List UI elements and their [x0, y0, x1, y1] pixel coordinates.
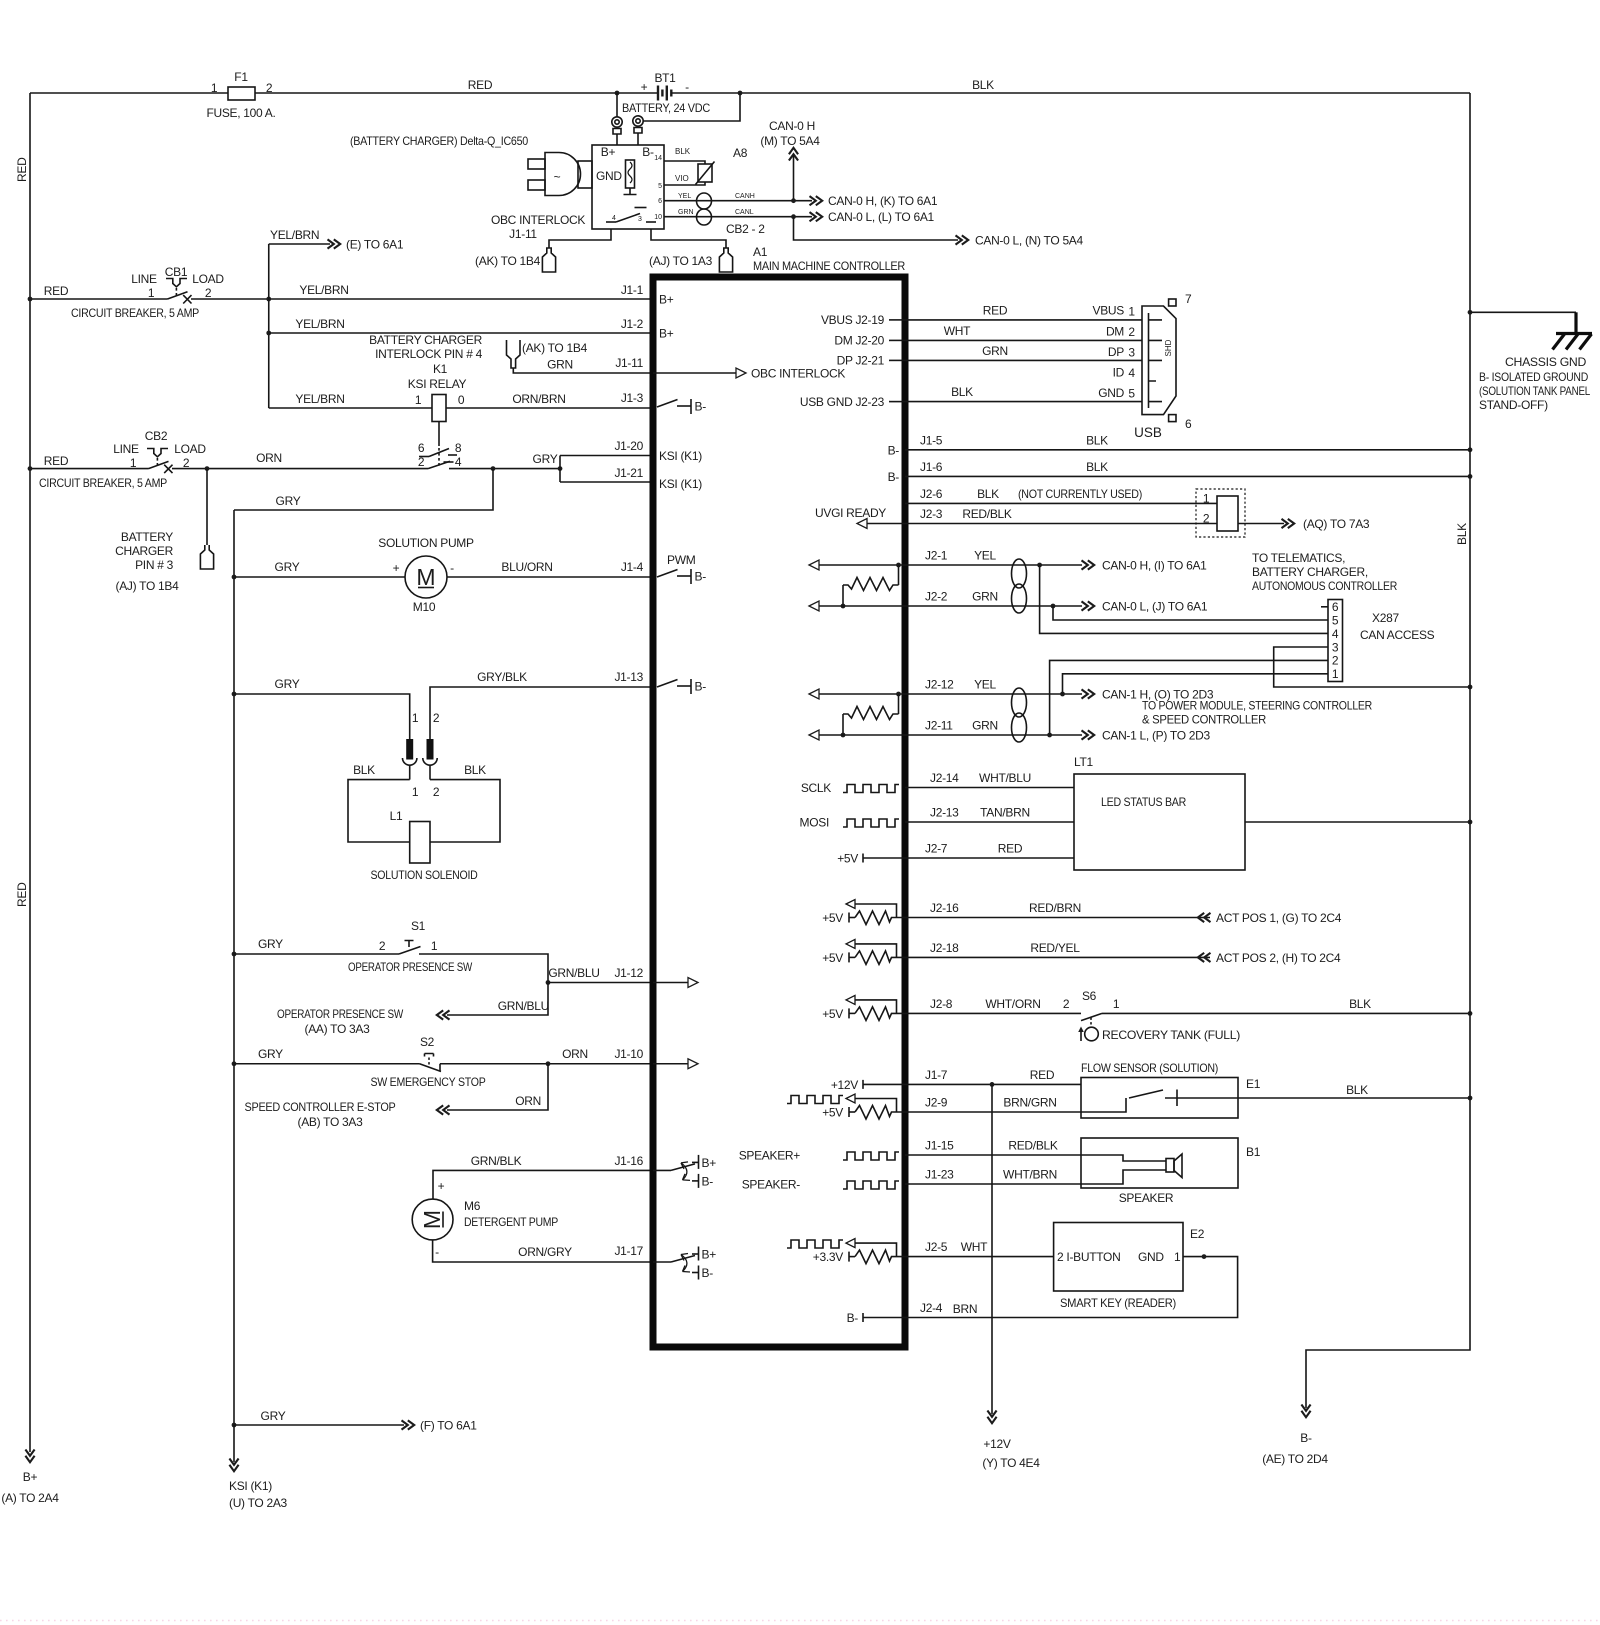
wire GRY bus to pump + [234, 576, 405, 578]
svg-text:(AB) TO 3A3: (AB) TO 3A3 [298, 1115, 364, 1129]
svg-text:+12V: +12V [831, 1078, 858, 1092]
node YEL/BRN vertical bus [268, 244, 270, 408]
svg-text:BLK: BLK [1346, 1083, 1368, 1097]
svg-text:J1-23: J1-23 [925, 1168, 954, 1182]
junction battery charger pin3 tap [205, 466, 210, 471]
svg-text:M6: M6 [464, 1199, 481, 1213]
svg-text:CB2: CB2 [145, 429, 168, 443]
UVGI 2-pin connector [1196, 489, 1245, 537]
svg-text:YEL/BRN: YEL/BRN [299, 283, 348, 297]
wire BLK flow sensor to right bus [1238, 1097, 1470, 1099]
wire YEL/BRN CB1 load to controller J1-1 [191, 298, 653, 300]
pin J1-12 input arrow (inside) [653, 982, 688, 984]
pin 14 (BLK) wire to varistor [664, 161, 705, 164]
speaker B1 [1081, 1138, 1261, 1205]
junction GRY drop [491, 466, 496, 471]
svg-text:OPERATOR PRESENCE SW: OPERATOR PRESENCE SW [277, 1007, 404, 1021]
svg-text:BLK: BLK [1455, 523, 1469, 545]
svg-text:ORN/GRY: ORN/GRY [518, 1245, 572, 1259]
node CAN-0 H (M) TO 5A4 : up arrow [760, 119, 820, 201]
svg-text:+5V: +5V [822, 911, 843, 925]
svg-text:6: 6 [418, 441, 425, 455]
junction S6 BLK / BLK bus [1468, 1011, 1473, 1016]
arrow B+ off-page (bottom left) [25, 1450, 34, 1463]
pin +5V pullup J2-8 (inside) [846, 995, 905, 1020]
svg-text:2: 2 [1203, 512, 1210, 526]
wire BLK from battery to right bus [671, 92, 1470, 94]
svg-text:ORN: ORN [515, 1094, 541, 1108]
wire S1 to J1-12 corner [419, 954, 548, 983]
svg-text:BLK: BLK [1086, 460, 1108, 474]
wire YEL/BRN to controller J1-2 [269, 332, 653, 334]
svg-text:GRY: GRY [276, 494, 301, 508]
svg-text:+: + [641, 80, 648, 94]
motor M6 detergent pump [412, 1199, 558, 1259]
pin J1-16 H-bridge output (inside) [653, 1155, 716, 1189]
svg-text:WHT/ORN: WHT/ORN [985, 997, 1040, 1011]
wire charger pin3 to connector (AJ) [651, 229, 726, 248]
svg-text:J1-15: J1-15 [925, 1139, 954, 1153]
wire CAN-0 H branch to X287 pin 4 [1040, 565, 1328, 633]
svg-text:SCLK: SCLK [801, 781, 831, 795]
svg-text:CB1: CB1 [165, 265, 188, 279]
pin 10 CANL wire [664, 216, 812, 218]
svg-text:CAN-1 L, (P) TO 2D3: CAN-1 L, (P) TO 2D3 [1102, 729, 1211, 743]
wire charger pin4 to connector (AK) [549, 229, 611, 248]
wire S2 to J1-10 [440, 1063, 653, 1065]
svg-text:J2-18: J2-18 [930, 941, 959, 955]
svg-text:8: 8 [455, 441, 462, 455]
arrow CAN-0 H (I) TO 6A1 [1082, 560, 1095, 569]
svg-text:ORN: ORN [256, 451, 282, 465]
svg-text:5: 5 [1128, 387, 1135, 401]
svg-text:J2-9: J2-9 [925, 1096, 948, 1110]
junction J1-2 tap [266, 331, 271, 336]
LED status bar LT1 [1074, 755, 1245, 870]
svg-text:GRY/BLK: GRY/BLK [477, 670, 527, 684]
varistor on charger output [696, 162, 715, 185]
choke / transformer inside charger [624, 160, 637, 195]
svg-text:KSI (K1): KSI (K1) [659, 449, 702, 463]
svg-text:+5V: +5V [837, 852, 858, 866]
wire RED/BLK J2-3 UVGI [905, 523, 1217, 525]
junction GRY to pump [232, 575, 237, 580]
svg-text:A1: A1 [753, 245, 768, 259]
svg-text:K1: K1 [433, 362, 448, 376]
svg-text:2 I-BUTTON: 2 I-BUTTON [1057, 1250, 1120, 1264]
svg-text:7: 7 [1185, 292, 1192, 306]
junction chassis ground tap [1468, 310, 1473, 315]
wire BLK left loop to solenoid [348, 780, 410, 842]
wire X287 pin 3 ground to right bus [1274, 647, 1470, 687]
twisted pair CB2-2 [697, 193, 712, 225]
relay K1 contact 2-4 [418, 455, 462, 469]
svg-text:KSI (K1): KSI (K1) [229, 1479, 272, 1493]
wire BRN/GRN J2-9 to flow sensor [905, 1111, 1081, 1113]
svg-text:CB2 - 2: CB2 - 2 [726, 222, 765, 236]
svg-text:CHARGER: CHARGER [115, 544, 174, 558]
decorative bottom dotted line [0, 1620, 1600, 1622]
svg-text:INTERLOCK PIN # 4: INTERLOCK PIN # 4 [375, 347, 483, 361]
svg-text:PIN # 3: PIN # 3 [135, 558, 174, 572]
svg-text:CAN-0 L, (N) TO 5A4: CAN-0 L, (N) TO 5A4 [975, 234, 1084, 248]
wire GRY bus to S2 [234, 1063, 420, 1065]
svg-text:YEL/BRN: YEL/BRN [295, 392, 344, 406]
svg-text:SOLUTION PUMP: SOLUTION PUMP [378, 536, 474, 550]
svg-text:B1: B1 [1246, 1145, 1261, 1159]
svg-text:BATTERY CHARGER: BATTERY CHARGER [369, 333, 482, 347]
svg-text:J1-13: J1-13 [614, 670, 643, 684]
wire ORN/GRY pump - to controller J1-17 [433, 1240, 653, 1262]
svg-text:0: 0 [458, 393, 465, 407]
wire BLK J2-23 to USB pin5 [905, 401, 1142, 403]
svg-text:YEL/BRN: YEL/BRN [270, 228, 319, 242]
svg-text:BLK: BLK [951, 385, 973, 399]
svg-text:RED/BRN: RED/BRN [1029, 901, 1081, 915]
wire WHT J2-20 to USB pin2 [905, 339, 1142, 341]
wire relay contact 4 to KSI fork [449, 468, 560, 470]
svg-text:X287: X287 [1372, 611, 1399, 625]
wire WHT/ORN J2-8 to S6 [905, 1012, 1081, 1014]
wire BLK J2-6 (not currently used) [905, 502, 1217, 504]
svg-text:ORN/BRN: ORN/BRN [512, 392, 565, 406]
svg-text:DM: DM [1106, 325, 1124, 339]
svg-text:(E) TO 6A1: (E) TO 6A1 [346, 238, 404, 252]
svg-text:GRN: GRN [972, 590, 998, 604]
wire ORN from CB2 to relay contact 2 [172, 468, 428, 470]
junction X287 pin3 / BLK bus [1468, 685, 1473, 690]
svg-text:B-: B- [888, 470, 900, 484]
svg-text:J1-3: J1-3 [621, 391, 644, 405]
junction J1-6 / BLK bus [1468, 474, 1473, 479]
svg-text:USB: USB [1134, 425, 1162, 440]
wire GRN J2-11 CAN-1 L [905, 734, 1082, 736]
junction GRY to S2 [232, 1061, 237, 1066]
svg-text:L1: L1 [390, 809, 403, 823]
pin +5V pullup J2-9 with PWM (inside) [846, 1094, 905, 1119]
svg-text:-: - [435, 1245, 439, 1259]
svg-text:GRY: GRY [258, 937, 283, 951]
svg-text:J1-21: J1-21 [614, 466, 643, 480]
svg-text:2: 2 [205, 286, 212, 300]
circuit breaker CB2 [39, 429, 206, 490]
svg-text:B-: B- [888, 443, 900, 457]
wire GRY bus to solenoid pin 1 [234, 694, 410, 739]
svg-text:CANL: CANL [735, 209, 754, 216]
svg-text:J2-6: J2-6 [920, 487, 943, 501]
svg-text:J1-10: J1-10 [614, 1047, 643, 1061]
svg-text:SW EMERGENCY STOP: SW EMERGENCY STOP [371, 1075, 486, 1089]
svg-text:MAIN MACHINE CONTROLLER: MAIN MACHINE CONTROLLER [753, 259, 906, 273]
junction KSI fork [558, 466, 563, 471]
svg-text:B-: B- [642, 145, 654, 159]
relay K1 contact 6-8 [418, 441, 462, 457]
svg-text:B-: B- [847, 1311, 859, 1325]
wire WHT/BLU J2-14 to LED bar [905, 787, 1109, 789]
pin J2-1 CAN input (inside) [809, 560, 819, 570]
junction GRY to solenoid [232, 692, 237, 697]
svg-text:BLK: BLK [464, 763, 486, 777]
svg-text:CAN-0 H, (K) TO 6A1: CAN-0 H, (K) TO 6A1 [828, 194, 938, 208]
svg-text:LED STATUS BAR: LED STATUS BAR [1101, 795, 1187, 809]
svg-text:(F) TO 6A1: (F) TO 6A1 [420, 1419, 477, 1433]
arrow B- (AE) TO 2D4 [1301, 1405, 1310, 1418]
arrow CAN-1 H (O) TO 2D3 [1082, 689, 1095, 698]
svg-text:+: + [393, 561, 400, 575]
pin J1-13 B- return (inside) [657, 679, 706, 694]
svg-text:J1-6: J1-6 [920, 460, 943, 474]
svg-text:DM J2-20: DM J2-20 [834, 334, 884, 348]
svg-text:J1-11: J1-11 [509, 227, 537, 241]
svg-text:B-: B- [1300, 1431, 1312, 1445]
svg-text:GND: GND [596, 169, 622, 183]
svg-text:GRY: GRY [275, 677, 300, 691]
CAN-1 termination resistor (inside) [841, 692, 901, 738]
connector (AK) TO 1B4 at J1-11 [507, 340, 588, 368]
svg-text:MOSI: MOSI [800, 816, 829, 830]
wire BLK J1-6 to right bus [905, 475, 1470, 477]
wire GRN/BLK controller J1-16 to pump + [433, 1170, 653, 1199]
svg-text:B+: B+ [601, 145, 616, 159]
svg-text:BATTERY CHARGER,: BATTERY CHARGER, [1252, 565, 1368, 579]
svg-text:J1-17: J1-17 [614, 1244, 643, 1258]
pin +3.3V pullup J2-5 with PWM (inside) [846, 1239, 905, 1264]
svg-text:2: 2 [433, 711, 440, 725]
CAN-0 termination resistor (inside) [841, 563, 901, 609]
wire BLK S6 to right bus [1102, 1012, 1470, 1014]
wire RED/BRN J2-16 act pos 1 [905, 917, 1210, 919]
arrow CAN-0 L (J) TO 6A1 [1082, 601, 1095, 610]
svg-text:J2-1: J2-1 [925, 549, 948, 563]
twisted pair CAN-0 [1012, 559, 1027, 613]
svg-text:J2-4: J2-4 [920, 1301, 943, 1315]
svg-text:(NOT CURRENTLY USED): (NOT CURRENTLY USED) [1018, 487, 1142, 501]
svg-text:LOAD: LOAD [192, 272, 224, 286]
svg-text:TO POWER MODULE, STEERING CONT: TO POWER MODULE, STEERING CONTROLLER [1142, 699, 1373, 713]
junction LED bar / BLK bus [1468, 820, 1473, 825]
svg-text:VBUS J2-19: VBUS J2-19 [821, 313, 885, 327]
fuse F1 [206, 70, 275, 120]
junction CAN-0 L branch [1051, 604, 1056, 609]
junction CAN-1 L branch [1047, 733, 1052, 738]
wire BLK right loop to solenoid [430, 780, 500, 842]
svg-text:(AK) TO 1B4: (AK) TO 1B4 [475, 254, 541, 268]
arrow KSI off-page bottom [233, 1425, 235, 1462]
svg-text:GRY: GRY [258, 1047, 283, 1061]
svg-text:F1: F1 [234, 70, 248, 84]
svg-text:BLU/ORN: BLU/ORN [501, 560, 552, 574]
svg-text:CAN ACCESS: CAN ACCESS [1360, 628, 1435, 642]
wire CAN-1 H branch to X287 pin 1 [1063, 674, 1329, 694]
svg-text:SPEAKER+: SPEAKER+ [739, 1149, 801, 1163]
socket cup pin 2 [423, 758, 437, 765]
junction GRY to (F) [232, 1423, 237, 1428]
svg-text:RED: RED [998, 842, 1023, 856]
USB connector shell [1134, 292, 1192, 440]
pin J1-17 H-bridge output (inside) [653, 1247, 716, 1281]
svg-text:PWM: PWM [667, 553, 696, 567]
junction flow sensor BLK / BLK bus [1468, 1096, 1473, 1101]
svg-text:(M) TO 5A4: (M) TO 5A4 [760, 134, 820, 148]
svg-text:6: 6 [1185, 417, 1192, 431]
svg-text:CANH: CANH [735, 193, 755, 200]
svg-text:J1-20: J1-20 [614, 439, 643, 453]
svg-text:J2-8: J2-8 [930, 997, 953, 1011]
junction B+ bus / CB1 [28, 297, 33, 302]
relay K1 coil [415, 393, 465, 422]
svg-text:GRY: GRY [261, 1409, 286, 1423]
svg-text:OBC INTERLOCK: OBC INTERLOCK [491, 213, 585, 227]
svg-text:WHT: WHT [961, 1240, 988, 1254]
svg-text:J1-7: J1-7 [925, 1068, 948, 1082]
pin J2-2 CAN input (inside) [809, 601, 819, 611]
battery charger A8 box [592, 145, 664, 229]
svg-text:GND: GND [1138, 1250, 1164, 1264]
solenoid coil L1 [371, 809, 479, 882]
wire RED J1-7 to flow sensor [905, 1083, 1081, 1085]
svg-text:J1-11: J1-11 [615, 356, 643, 370]
junction B+ bus / CB2 [28, 466, 33, 471]
svg-text:WHT: WHT [944, 324, 971, 338]
svg-text:J2-14: J2-14 [930, 771, 959, 785]
svg-text:AUTONOMOUS CONTROLLER: AUTONOMOUS CONTROLLER [1252, 579, 1398, 593]
pin 5 (VIO) wire from varistor [664, 182, 705, 185]
svg-text:KSI (K1): KSI (K1) [659, 477, 702, 491]
svg-text:(AK) TO 1B4: (AK) TO 1B4 [522, 341, 588, 355]
svg-text:4: 4 [455, 455, 462, 469]
svg-text:CIRCUIT BREAKER, 5 AMP: CIRCUIT BREAKER, 5 AMP [39, 476, 167, 490]
svg-text:& SPEED CONTROLLER: & SPEED CONTROLLER [1142, 713, 1267, 727]
svg-text:OPERATOR PRESENCE SW: OPERATOR PRESENCE SW [348, 960, 473, 974]
svg-text:3: 3 [1128, 346, 1135, 360]
svg-text:GRN/BLK: GRN/BLK [471, 1154, 522, 1168]
svg-text:S2: S2 [420, 1035, 435, 1049]
wire RED from B+ bus to CB2 [30, 468, 149, 470]
wire CAN-0 L branch to X287 pin 5 [1053, 606, 1328, 620]
svg-text:1: 1 [415, 393, 422, 407]
svg-text:BLK: BLK [353, 763, 375, 777]
wire WHT/BRN J1-23 to speaker [905, 1183, 1081, 1185]
arrow CAN-1 L (P) TO 2D3 [1082, 730, 1095, 739]
wire ring to charger B- pin [637, 133, 639, 145]
svg-text:(AJ) TO 1A3: (AJ) TO 1A3 [649, 254, 713, 268]
svg-text:(BATTERY CHARGER) Delta-Q_IC65: (BATTERY CHARGER) Delta-Q_IC650 [350, 134, 529, 148]
svg-text:GRN/BLU: GRN/BLU [498, 999, 549, 1013]
svg-text:BATTERY: BATTERY [121, 530, 173, 544]
svg-text:(SOLUTION TANK PANEL: (SOLUTION TANK PANEL [1479, 384, 1591, 398]
svg-text:YEL: YEL [974, 678, 996, 692]
svg-text:B+: B+ [23, 1470, 38, 1484]
svg-text:STAND-OFF): STAND-OFF) [1479, 398, 1548, 412]
socket cup pin 1 [403, 758, 417, 765]
wire GRY drop to bus [234, 469, 493, 510]
svg-text:SOLUTION SOLENOID: SOLUTION SOLENOID [371, 868, 479, 882]
svg-text:RED: RED [44, 284, 69, 298]
svg-text:CAN-0 H, (I) TO 6A1: CAN-0 H, (I) TO 6A1 [1102, 559, 1207, 573]
svg-text:J2-13: J2-13 [930, 806, 959, 820]
svg-text:-: - [450, 561, 454, 575]
wire RED J2-19 to USB pin1 [905, 319, 1142, 321]
junction CANL / (N) branch [791, 214, 796, 219]
svg-text:M: M [419, 1210, 445, 1229]
svg-text:(AE) TO 2D4: (AE) TO 2D4 [1262, 1452, 1328, 1466]
switch S6 recovery tank float [1078, 989, 1240, 1042]
ring terminal B+ [612, 117, 622, 134]
wire battery + down to ring terminal [616, 93, 618, 117]
svg-text:GRY: GRY [275, 560, 300, 574]
svg-text:J2-16: J2-16 [930, 901, 959, 915]
controller box A1 [653, 277, 905, 1347]
svg-text:(AQ) TO 7A3: (AQ) TO 7A3 [1303, 517, 1370, 531]
switch S2 emergency stop [371, 1035, 486, 1089]
svg-text:RED: RED [1030, 1068, 1055, 1082]
svg-text:DETERGENT PUMP: DETERGENT PUMP [464, 1215, 558, 1229]
svg-text:1: 1 [211, 81, 218, 95]
svg-text:J2-3: J2-3 [920, 507, 943, 521]
wire YEL J2-12 CAN-1 H [905, 693, 1082, 695]
svg-text:BRN: BRN [953, 1302, 977, 1316]
svg-text:2: 2 [1063, 997, 1070, 1011]
svg-text:GRN: GRN [547, 358, 573, 372]
wire YEL/BRN bus to K1 coil [269, 407, 432, 409]
junction CANH / (M) branch [791, 198, 796, 203]
svg-text:USB GND J2-23: USB GND J2-23 [800, 395, 885, 409]
svg-text:M10: M10 [413, 600, 436, 614]
svg-text:6: 6 [658, 198, 662, 205]
wire GRY/BLK solenoid pin 2 to controller J1-13 [430, 687, 653, 739]
svg-text:RED: RED [468, 78, 493, 92]
pin J1-10 input arrow (inside) [653, 1063, 688, 1065]
ring terminal B- [633, 116, 643, 133]
svg-text:5: 5 [1332, 614, 1339, 628]
svg-text:OBC INTERLOCK: OBC INTERLOCK [751, 367, 845, 381]
svg-text:GRY: GRY [533, 452, 558, 466]
wire GRN/BLU branch to (AA) TO 3A3 [447, 983, 548, 1016]
svg-text:GRN: GRN [982, 344, 1008, 358]
svg-text:1: 1 [1113, 997, 1120, 1011]
arrow CAN-0 L (L) TO 6A1 [810, 212, 823, 221]
svg-text:M: M [416, 564, 435, 590]
svg-text:CAN-0 H: CAN-0 H [769, 119, 815, 133]
wire WHT J2-5 to smart key [905, 1256, 1054, 1258]
svg-text:2: 2 [418, 455, 425, 469]
svg-text:+3.3V: +3.3V [813, 1250, 843, 1264]
svg-text:3: 3 [1332, 640, 1339, 654]
svg-text:BLK: BLK [977, 487, 999, 501]
wire battery - down/left to ring terminal [644, 93, 741, 121]
node BLK right vertical bus [1306, 93, 1470, 1408]
svg-text:SPEAKER: SPEAKER [1119, 1191, 1174, 1205]
connector (AJ) TO 1B4 battery charger pin 3 [115, 530, 214, 593]
svg-text:ACT POS 1, (G) TO 2C4: ACT POS 1, (G) TO 2C4 [1216, 911, 1342, 925]
wire RED J2-7 to LED bar [905, 857, 1074, 859]
wire +12V down to (Y) TO 4E4 [991, 1084, 993, 1414]
wire connector to (AQ) TO 7A3 [1238, 523, 1284, 525]
node B+ : left RED vertical bus [29, 93, 31, 1452]
svg-text:RED: RED [15, 157, 29, 182]
svg-text:J2-2: J2-2 [925, 590, 948, 604]
svg-text:(U) TO 2A3: (U) TO 2A3 [229, 1496, 288, 1510]
svg-text:ACT POS 2, (H) TO 2C4: ACT POS 2, (H) TO 2C4 [1216, 951, 1341, 965]
svg-text:4: 4 [1332, 627, 1339, 641]
junction +12V tap [990, 1082, 995, 1087]
pin +5V pullup J2-18 (inside) [846, 939, 905, 964]
svg-text:BRN/GRN: BRN/GRN [1003, 1096, 1056, 1110]
pin OBC INTERLOCK J1-11 (inside) [653, 372, 736, 374]
svg-text:5: 5 [658, 183, 662, 190]
node GRY vertical bus [233, 510, 235, 1425]
svg-text:YEL: YEL [678, 193, 691, 200]
